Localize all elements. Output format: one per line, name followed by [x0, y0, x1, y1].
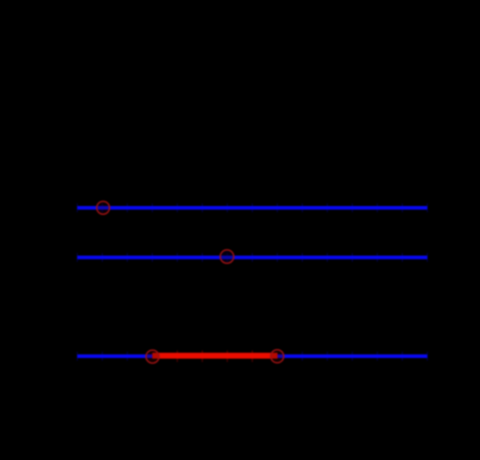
number line 2 (blue horizontal wire): [77, 256, 427, 260]
open circle marker on line 2: [220, 250, 233, 263]
tick marks on number line 2: [77, 253, 427, 262]
open circle marker at left end of segment on line 3: [146, 350, 159, 363]
red tick marks inside the segment span on line 3: [177, 350, 252, 362]
tick marks on number line 3 (blue part): [77, 352, 427, 361]
open circle marker on line 1: [97, 201, 110, 214]
open circle marker at right end of segment on line 3: [271, 350, 284, 363]
tick marks on number line 1: [77, 203, 427, 212]
number line 1 (blue horizontal wire): [77, 206, 427, 210]
red solution segment on line 3: [152, 353, 277, 359]
number line 3 (blue horizontal wire): [77, 354, 427, 358]
